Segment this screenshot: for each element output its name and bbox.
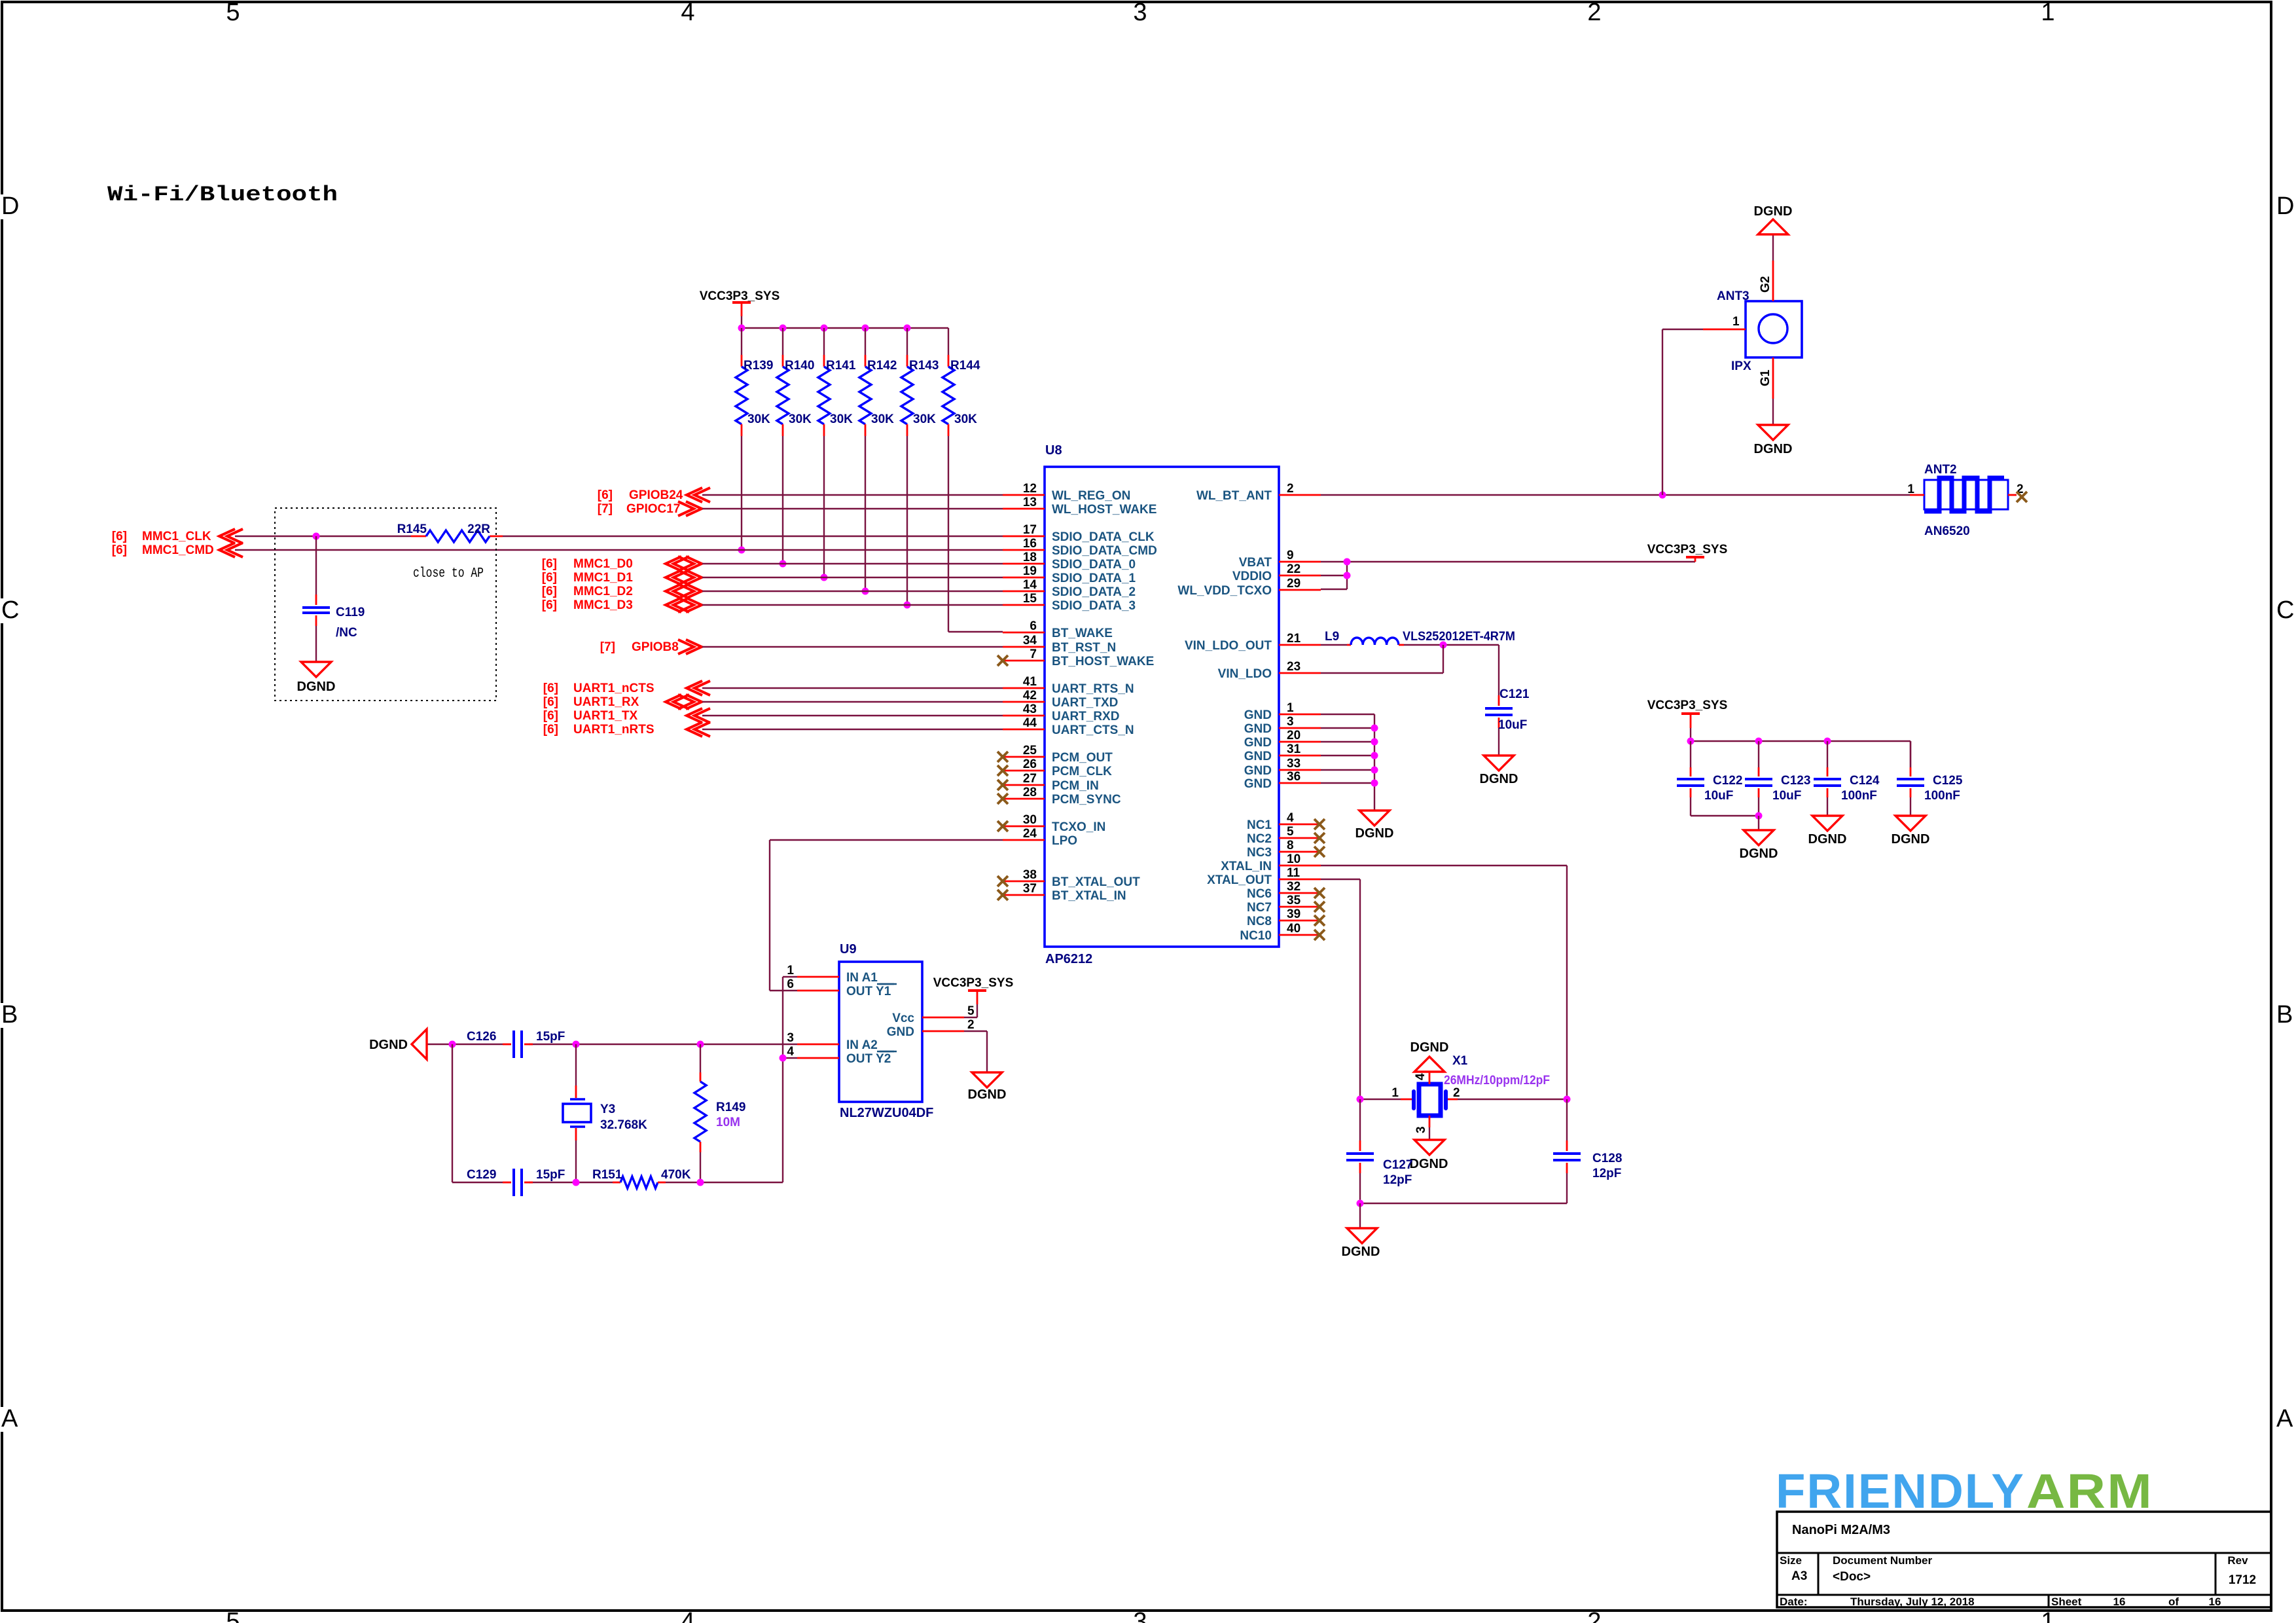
capacitor C129 15pF xyxy=(467,1168,565,1196)
svg-text:[6]: [6] xyxy=(542,557,557,571)
svg-text:ANT3: ANT3 xyxy=(1717,289,1749,303)
svg-text:15pF: 15pF xyxy=(536,1030,565,1044)
wire U9 feedback (pin1/pin4 to R151 rail) xyxy=(780,977,798,1182)
svg-text:SDIO_DATA_1: SDIO_DATA_1 xyxy=(1052,572,1136,585)
svg-text:C121: C121 xyxy=(1499,687,1530,701)
svg-text:7: 7 xyxy=(1030,647,1037,661)
svg-text:of: of xyxy=(2168,1596,2179,1608)
svg-text:1: 1 xyxy=(1287,701,1294,715)
pin 43 UART_RXD (U8 left) xyxy=(1003,702,1119,723)
svg-text:30K: 30K xyxy=(954,412,977,426)
svg-text:43: 43 xyxy=(1023,702,1037,716)
wire MMC1_D0 xyxy=(702,563,1003,564)
resistor R144 30K xyxy=(942,355,980,436)
svg-text:27: 27 xyxy=(1023,772,1037,786)
svg-text:VBAT: VBAT xyxy=(1239,556,1272,570)
wire GPIOC17 to pin 13 xyxy=(702,508,1003,509)
svg-text:10M: 10M xyxy=(716,1116,740,1129)
wire pull-up bus xyxy=(742,328,948,355)
wire VIN_LDO (pin23) xyxy=(1321,645,1443,673)
svg-text:3: 3 xyxy=(1414,1126,1428,1133)
svg-text:NC8: NC8 xyxy=(1247,915,1272,928)
svg-text:Rev: Rev xyxy=(2227,1554,2248,1567)
svg-text:44: 44 xyxy=(1023,716,1037,730)
svg-text:R149: R149 xyxy=(716,1101,745,1114)
pin 34 BT_RST_N (U8 left) xyxy=(1003,634,1116,655)
resistor R141 30K xyxy=(818,325,856,437)
ground DGND at U8 GND pins xyxy=(1355,811,1394,841)
svg-text:VDDIO: VDDIO xyxy=(1232,570,1272,583)
svg-text:41: 41 xyxy=(1023,675,1037,689)
pin 24 LPO (U8 left) xyxy=(1003,827,1077,848)
svg-text:VIN_LDO_OUT: VIN_LDO_OUT xyxy=(1185,639,1272,653)
svg-text:MMC1_D0: MMC1_D0 xyxy=(573,557,633,571)
svg-text:[6]: [6] xyxy=(112,543,127,557)
svg-text:2: 2 xyxy=(1287,482,1294,496)
svg-text:16: 16 xyxy=(2113,1596,2126,1608)
svg-text:Date:: Date: xyxy=(1780,1596,1808,1608)
svg-text:NC7: NC7 xyxy=(1247,901,1272,915)
svg-text:5: 5 xyxy=(967,1004,975,1018)
svg-text:Thursday, July 12, 2018: Thursday, July 12, 2018 xyxy=(1850,1596,1975,1608)
svg-text:<Doc>: <Doc> xyxy=(1833,1570,1871,1584)
svg-text:Y3: Y3 xyxy=(600,1103,615,1116)
wire VIN_LDO_OUT to C121 xyxy=(1404,645,1499,695)
pin 3 GND (U8 right) xyxy=(1244,715,1321,736)
pin 31 GND (U8 right) xyxy=(1244,742,1321,763)
power symbol VCC3P3_SYS (U9 Vcc) xyxy=(933,976,1014,1004)
svg-text:29: 29 xyxy=(1287,577,1300,591)
pin 29 WL_VDD_TCXO (U8 right) xyxy=(1177,577,1321,598)
svg-text:C122: C122 xyxy=(1713,774,1742,788)
svg-text:A3: A3 xyxy=(1791,1569,1807,1583)
svg-text:C128: C128 xyxy=(1592,1152,1622,1165)
svg-text:C: C xyxy=(1,596,19,624)
pin 10 XTAL_IN (U8 right) xyxy=(1221,852,1321,873)
pin 39 NC8 (U8 right) xyxy=(1247,907,1325,928)
capacitor C125 100nF xyxy=(1897,741,1963,803)
svg-text:SDIO_DATA_3: SDIO_DATA_3 xyxy=(1052,599,1136,613)
ground DGND above ANT3 (G2) xyxy=(1754,204,1793,261)
pin 16 SDIO_DATA_CMD (U8 left) xyxy=(1003,537,1157,558)
svg-text:DGND: DGND xyxy=(1740,847,1778,861)
svg-text:C123: C123 xyxy=(1781,774,1810,788)
svg-text:3: 3 xyxy=(1133,1608,1147,1623)
svg-text:GND: GND xyxy=(1244,736,1272,750)
svg-text:SDIO_DATA_CMD: SDIO_DATA_CMD xyxy=(1052,544,1157,558)
svg-text:15pF: 15pF xyxy=(536,1168,565,1182)
junction MMC1_CLK / C119 tap xyxy=(313,533,320,540)
svg-text:1: 1 xyxy=(1907,483,1914,496)
svg-text:2: 2 xyxy=(967,1018,975,1032)
svg-text:VIN_LDO: VIN_LDO xyxy=(1218,667,1272,681)
svg-text:[6]: [6] xyxy=(543,695,558,709)
svg-text:10: 10 xyxy=(1287,852,1300,866)
node UART1_TX off-page flag xyxy=(543,708,710,723)
pin 6 BT_WAKE (U8 left) xyxy=(1003,619,1113,640)
svg-text:C125: C125 xyxy=(1933,774,1963,788)
svg-text:NC3: NC3 xyxy=(1247,846,1272,860)
svg-text:4: 4 xyxy=(1287,811,1294,825)
svg-text:AP6212: AP6212 xyxy=(1045,952,1092,966)
svg-text:1: 1 xyxy=(1391,1086,1399,1100)
svg-text:30K: 30K xyxy=(830,412,853,426)
inductor L9 VLS252012ET-4R7M xyxy=(1321,630,1515,645)
svg-text:NC6: NC6 xyxy=(1247,887,1272,901)
power symbol VCC3P3_SYS (VBAT) xyxy=(1647,543,1728,562)
svg-text:WL_BT_ANT: WL_BT_ANT xyxy=(1196,489,1272,503)
svg-text:30K: 30K xyxy=(747,412,770,426)
svg-text:XTAL_OUT: XTAL_OUT xyxy=(1207,873,1272,887)
svg-text:C119: C119 xyxy=(336,606,365,619)
pin 33 GND (U8 right) xyxy=(1244,757,1321,778)
wire GPIOB24 to pin 12 xyxy=(702,494,1003,496)
wire U8 GND pins bus xyxy=(1321,714,1378,811)
svg-text:28: 28 xyxy=(1023,786,1037,799)
ground DGND at X1 caps xyxy=(1342,1228,1380,1259)
svg-text:26: 26 xyxy=(1023,757,1037,771)
resistor R151 470K xyxy=(592,1168,691,1188)
svg-text:[6]: [6] xyxy=(542,585,557,598)
pin 28 PCM_SYNC (U8 left) xyxy=(997,786,1121,807)
svg-text:26MHz/10ppm/12pF: 26MHz/10ppm/12pF xyxy=(1444,1074,1550,1087)
svg-text:5: 5 xyxy=(1287,825,1294,839)
svg-text:C129: C129 xyxy=(467,1168,496,1182)
svg-text:22: 22 xyxy=(1287,562,1300,576)
svg-text:[6]: [6] xyxy=(543,682,558,695)
pin 2 GND (U9 right) xyxy=(887,1018,975,1039)
ground DGND at C121 xyxy=(1480,756,1518,786)
wire C124 ground xyxy=(1827,797,1828,816)
svg-text:SDIO_DATA_2: SDIO_DATA_2 xyxy=(1052,585,1136,599)
svg-text:Size: Size xyxy=(1780,1554,1802,1567)
wire R143 lower lead xyxy=(904,436,911,609)
svg-text:3: 3 xyxy=(787,1031,794,1045)
pin 37 BT_XTAL_IN (U8 left) xyxy=(997,882,1126,903)
svg-text:30K: 30K xyxy=(871,412,894,426)
ground DGND at C124 xyxy=(1808,816,1847,847)
svg-text:VCC3P3_SYS: VCC3P3_SYS xyxy=(933,976,1014,990)
svg-text:R143: R143 xyxy=(909,359,939,373)
svg-text:40: 40 xyxy=(1287,922,1300,936)
svg-text:Vcc: Vcc xyxy=(892,1012,914,1025)
wire X1 caps ground rail xyxy=(1357,1200,1568,1229)
node MMC1_D0 off-page flag xyxy=(542,556,702,571)
svg-text:UART_CTS_N: UART_CTS_N xyxy=(1052,723,1134,737)
pin 9 VBAT (U8 right) xyxy=(1239,549,1321,570)
svg-text:PCM_CLK: PCM_CLK xyxy=(1052,765,1112,778)
svg-text:3: 3 xyxy=(1287,715,1294,729)
svg-text:4: 4 xyxy=(1414,1073,1427,1080)
pin 27 PCM_IN (U8 left) xyxy=(997,772,1099,793)
svg-text:IPX: IPX xyxy=(1731,359,1751,373)
capacitor C126 15pF xyxy=(467,1030,565,1058)
svg-text:GND: GND xyxy=(887,1025,914,1039)
svg-text:R140: R140 xyxy=(785,359,814,373)
svg-text:DGND: DGND xyxy=(1480,772,1518,786)
svg-text:30K: 30K xyxy=(789,412,812,426)
svg-text:PCM_IN: PCM_IN xyxy=(1052,779,1099,793)
svg-text:31: 31 xyxy=(1287,742,1301,756)
ground DGND at 32k osc xyxy=(369,1029,427,1059)
svg-text:BT_XTAL_OUT: BT_XTAL_OUT xyxy=(1052,875,1140,889)
svg-text:D: D xyxy=(2276,192,2294,220)
svg-text:30K: 30K xyxy=(913,412,936,426)
svg-text:VCC3P3_SYS: VCC3P3_SYS xyxy=(700,289,780,303)
pin 42 UART_TXD (U8 left) xyxy=(1003,689,1118,710)
ground DGND at C123 xyxy=(1740,830,1778,861)
svg-text:DGND: DGND xyxy=(1410,1157,1448,1171)
wire ANT3 branch xyxy=(1662,329,1703,495)
connector ANT3 IPX xyxy=(1703,261,1802,399)
svg-text:UART1_nRTS: UART1_nRTS xyxy=(573,723,655,737)
svg-text:BT_HOST_WAKE: BT_HOST_WAKE xyxy=(1052,655,1154,668)
capacitor C121 10uF xyxy=(1485,687,1530,756)
pin 13 WL_HOST_WAKE (U8 left) xyxy=(1003,496,1157,517)
svg-text:UART_TXD: UART_TXD xyxy=(1052,696,1118,710)
ground DGND above X1 pin 4 xyxy=(1410,1040,1449,1072)
svg-text:UART1_RX: UART1_RX xyxy=(573,695,639,709)
svg-text:3: 3 xyxy=(1133,0,1147,26)
svg-text:TCXO_IN: TCXO_IN xyxy=(1052,820,1105,834)
svg-text:33: 33 xyxy=(1287,757,1300,771)
svg-text:5: 5 xyxy=(226,1608,240,1623)
node UART1_RX off-page flag xyxy=(543,695,702,709)
svg-text:32: 32 xyxy=(1287,880,1300,894)
svg-text:DGND: DGND xyxy=(1410,1040,1449,1055)
svg-text:24: 24 xyxy=(1023,827,1037,841)
svg-text:DGND: DGND xyxy=(1342,1245,1380,1259)
svg-text:UART_RXD: UART_RXD xyxy=(1052,710,1119,723)
node MMC1_CLK off-page flag xyxy=(112,529,243,543)
resistor R143 30K xyxy=(901,325,939,437)
svg-text:IN A2: IN A2 xyxy=(846,1038,878,1052)
wire UART1_nCTS xyxy=(702,687,1003,689)
IC U8 AP6212 body xyxy=(1045,443,1279,966)
pin 17 SDIO_DATA_CLK (U8 left) xyxy=(1003,523,1155,544)
pin 41 UART_RTS_N (U8 left) xyxy=(1003,675,1134,696)
capacitor C122 10uF xyxy=(1677,741,1742,803)
pin 38 BT_XTAL_OUT (U8 left) xyxy=(997,868,1140,889)
svg-text:470K: 470K xyxy=(661,1168,691,1182)
resistor R145 22R xyxy=(397,522,491,542)
svg-text:MMC1_D2: MMC1_D2 xyxy=(573,585,633,598)
antenna ANT2 AN6520 xyxy=(1907,463,2027,538)
svg-text:DGND: DGND xyxy=(1808,832,1847,847)
svg-text:GND: GND xyxy=(1244,777,1272,791)
svg-text:10uF: 10uF xyxy=(1498,718,1527,732)
svg-text:C126: C126 xyxy=(467,1030,496,1044)
svg-text:X1: X1 xyxy=(1452,1054,1468,1068)
svg-text:4: 4 xyxy=(787,1045,794,1059)
wire XTAL_IN to X1 pin 2 xyxy=(1321,866,1567,1099)
wire MMC1_CMD to pin 16 xyxy=(235,549,1003,551)
pin 30 TCXO_IN (U8 left) xyxy=(997,813,1105,834)
resistor R139 30K xyxy=(736,325,773,437)
svg-text:[6]: [6] xyxy=(542,571,557,585)
svg-text:R142: R142 xyxy=(867,359,897,373)
svg-text:SDIO_DATA_0: SDIO_DATA_0 xyxy=(1052,558,1136,572)
svg-text:L9: L9 xyxy=(1325,630,1339,644)
svg-text:DGND: DGND xyxy=(1754,204,1793,219)
svg-text:MMC1_CLK: MMC1_CLK xyxy=(142,530,211,543)
wire R142 lower lead xyxy=(862,436,869,595)
svg-text:30: 30 xyxy=(1023,813,1037,827)
svg-text:14: 14 xyxy=(1023,578,1037,592)
resistor R149 10M xyxy=(694,1044,745,1182)
svg-text:22R: 22R xyxy=(467,522,490,536)
wire GPIOB8 to pin 34 xyxy=(702,646,1003,647)
svg-text:36: 36 xyxy=(1287,770,1300,784)
pin 4 OUT Y2 (U9 left) xyxy=(787,1045,897,1066)
pin 44 UART_CTS_N (U8 left) xyxy=(1003,716,1134,737)
wire U9 Vcc xyxy=(964,1004,977,1017)
svg-text:32.768K: 32.768K xyxy=(600,1118,647,1132)
svg-text:WL_REG_ON: WL_REG_ON xyxy=(1052,489,1130,503)
pin 26 PCM_CLK (U8 left) xyxy=(997,757,1112,778)
svg-text:16: 16 xyxy=(1023,537,1037,551)
svg-text:VLS252012ET-4R7M: VLS252012ET-4R7M xyxy=(1403,630,1515,644)
svg-text:[6]: [6] xyxy=(542,598,557,612)
capacitor C123 10uF xyxy=(1745,741,1810,803)
title block xyxy=(1777,1512,2271,1608)
wire MMC1_D1 xyxy=(702,577,1003,578)
wire R140 lower lead xyxy=(780,436,787,568)
wire R139 lower lead xyxy=(738,436,745,554)
svg-text:8: 8 xyxy=(1287,839,1294,852)
svg-text:D: D xyxy=(1,192,19,220)
resistor R140 30K xyxy=(777,325,814,437)
svg-text:NL27WZU04DF: NL27WZU04DF xyxy=(840,1106,933,1120)
svg-text:DGND: DGND xyxy=(1355,826,1394,841)
svg-text:close to AP: close to AP xyxy=(413,566,484,581)
svg-text:GPIOB8: GPIOB8 xyxy=(632,640,679,654)
svg-text:[6]: [6] xyxy=(598,488,613,502)
svg-text:GND: GND xyxy=(1244,764,1272,778)
wire UART1_RX xyxy=(702,701,1003,702)
crystal X1 26MHz xyxy=(1391,1054,1550,1133)
svg-text:DGND: DGND xyxy=(968,1087,1007,1102)
pin 5 Vcc (U9 right) xyxy=(892,1004,975,1025)
svg-text:VCC3P3_SYS: VCC3P3_SYS xyxy=(1647,543,1728,556)
svg-text:BT_RST_N: BT_RST_N xyxy=(1052,641,1116,655)
svg-text:ARM: ARM xyxy=(2026,1464,2153,1518)
pin 12 WL_REG_ON (U8 left) xyxy=(1003,482,1130,503)
svg-text:1: 1 xyxy=(1732,315,1740,329)
svg-text:13: 13 xyxy=(1023,496,1037,509)
pin 21 VIN_LDO_OUT (U8 right) xyxy=(1185,632,1321,653)
svg-text:23: 23 xyxy=(1287,660,1300,674)
pin 36 GND (U8 right) xyxy=(1244,770,1321,791)
power symbol VCC3P3_SYS (pull-up rail) xyxy=(700,289,780,316)
wire 32k top rail (IN A2) xyxy=(427,1041,797,1048)
svg-text:B: B xyxy=(1,1001,18,1029)
svg-text:PCM_SYNC: PCM_SYNC xyxy=(1052,793,1121,807)
svg-text:35: 35 xyxy=(1287,894,1301,907)
svg-text:Document Number: Document Number xyxy=(1833,1554,1932,1567)
wire 32k bottom rail xyxy=(452,1179,783,1186)
svg-text:GPIOC17: GPIOC17 xyxy=(626,502,680,516)
svg-text:R141: R141 xyxy=(826,359,856,373)
pin 4 NC1 (U8 right) xyxy=(1247,811,1325,832)
pin 32 NC6 (U8 right) xyxy=(1247,880,1325,901)
svg-text:16: 16 xyxy=(2209,1596,2221,1608)
svg-text:UART1_TX: UART1_TX xyxy=(573,709,638,723)
svg-text:C: C xyxy=(2276,596,2294,624)
svg-text:12: 12 xyxy=(1023,482,1037,496)
svg-text:4: 4 xyxy=(681,1608,694,1623)
svg-text:MMC1_D3: MMC1_D3 xyxy=(573,598,633,612)
svg-text:6: 6 xyxy=(787,977,794,991)
svg-text:NanoPi M2A/M3: NanoPi M2A/M3 xyxy=(1792,1523,1890,1537)
svg-text:20: 20 xyxy=(1287,729,1300,742)
node MMC1_D1 off-page flag xyxy=(542,570,702,585)
resistor R142 30K xyxy=(859,325,897,437)
ground DGND below X1 pin 3 xyxy=(1410,1127,1448,1171)
svg-text:A: A xyxy=(1,1405,18,1432)
svg-text:2: 2 xyxy=(1587,0,1601,26)
node GPIOB8 off-page flag xyxy=(600,640,702,654)
svg-text:Wi-Fi/Bluetooth: Wi-Fi/Bluetooth xyxy=(107,183,338,207)
svg-text:12pF: 12pF xyxy=(1383,1173,1412,1187)
svg-text:C124: C124 xyxy=(1850,774,1880,788)
svg-text:10uF: 10uF xyxy=(1704,789,1733,803)
svg-text:39: 39 xyxy=(1287,907,1300,921)
svg-text:9: 9 xyxy=(1287,549,1294,562)
svg-text:6: 6 xyxy=(1030,619,1037,633)
svg-text:B: B xyxy=(2276,1001,2293,1029)
pin 1 GND (U8 right) xyxy=(1244,701,1321,722)
wire decoupling rail xyxy=(1687,728,1911,767)
svg-text:XTAL_IN: XTAL_IN xyxy=(1221,860,1272,873)
svg-text:G2: G2 xyxy=(1759,276,1772,293)
svg-text:25: 25 xyxy=(1023,744,1037,757)
wire MMC1_D2 xyxy=(702,591,1003,592)
svg-text:C127: C127 xyxy=(1383,1158,1412,1172)
ground DGND below ANT3 (G1) xyxy=(1754,399,1793,456)
pin 18 SDIO_DATA_0 (U8 left) xyxy=(1003,551,1136,572)
pin 11 XTAL_OUT (U8 right) xyxy=(1207,866,1321,887)
svg-text:MMC1_D1: MMC1_D1 xyxy=(573,571,633,585)
wire XTAL_OUT to X1 pin 1 xyxy=(1321,879,1360,1099)
FriendlyARM logo xyxy=(1776,1464,2153,1518)
svg-text:100nF: 100nF xyxy=(1841,789,1877,803)
svg-text:/NC: /NC xyxy=(336,626,357,640)
capacitor C119 /NC xyxy=(302,536,365,662)
svg-text:[6]: [6] xyxy=(112,530,127,543)
svg-text:AN6520: AN6520 xyxy=(1924,524,1970,538)
svg-text:11: 11 xyxy=(1287,866,1300,880)
ground DGND at U9 xyxy=(968,1072,1007,1102)
svg-text:18: 18 xyxy=(1023,551,1037,564)
svg-text:2: 2 xyxy=(1453,1086,1460,1100)
node UART1_nCTS off-page flag xyxy=(543,681,710,695)
power symbol VCC3P3_SYS (decoupling bank) xyxy=(1647,699,1728,728)
svg-text:UART_RTS_N: UART_RTS_N xyxy=(1052,682,1134,696)
wire WL_BT_ANT to ANT2 xyxy=(1321,494,1910,496)
svg-text:GND: GND xyxy=(1244,708,1272,722)
node MMC1_D3 off-page flag xyxy=(542,598,702,612)
pin 8 NC3 (U8 right) xyxy=(1247,839,1325,860)
note box close to AP xyxy=(275,508,496,701)
pin 5 NC2 (U8 right) xyxy=(1247,825,1325,846)
ground DGND at C119 xyxy=(297,662,336,694)
wire C122/C123 ground tie xyxy=(1691,797,1763,830)
svg-text:IN A1: IN A1 xyxy=(846,971,878,985)
node UART1_nRTS off-page flag xyxy=(543,722,710,737)
svg-text:[7]: [7] xyxy=(600,640,615,654)
svg-text:1: 1 xyxy=(2041,0,2054,26)
